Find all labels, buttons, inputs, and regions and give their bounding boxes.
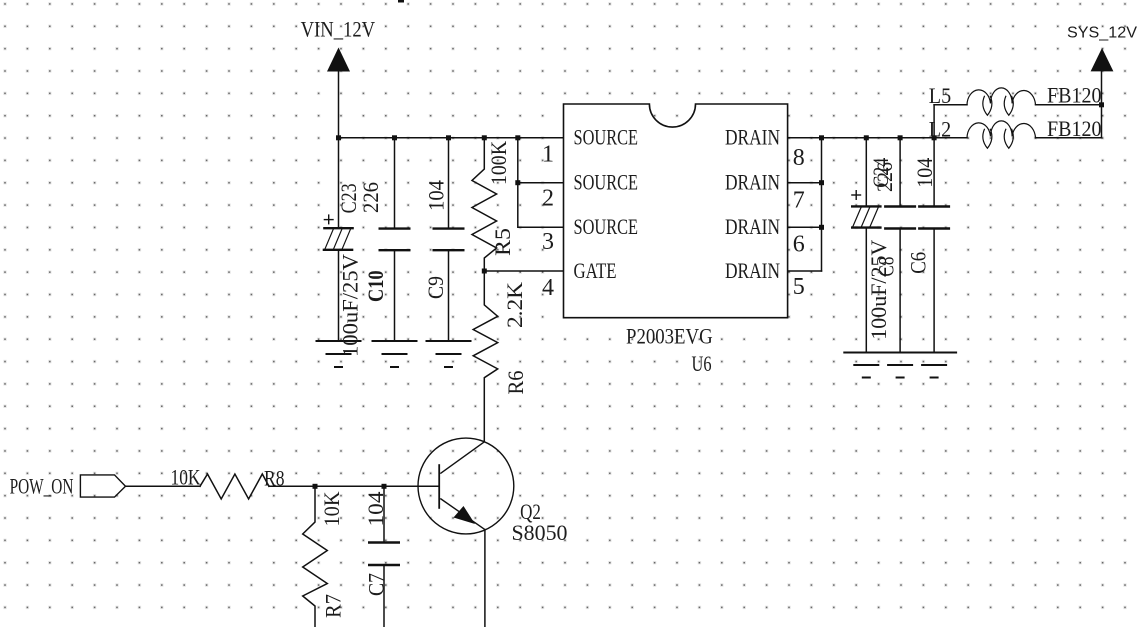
svg-text:R5: R5	[490, 228, 515, 256]
inductor L5 humps	[967, 88, 1036, 115]
wire R8 to Q2 base	[269, 485, 439, 487]
svg-text:SOURCE: SOURCE	[574, 125, 639, 150]
stray mark top edge	[398, 0, 404, 3]
ground under C23	[316, 341, 362, 367]
junction C8 at bus	[898, 135, 903, 140]
wire POW_ON to R8	[126, 485, 201, 487]
svg-text:10K: 10K	[319, 491, 344, 526]
svg-text:8: 8	[793, 145, 805, 171]
resistor R7 zigzag	[303, 486, 328, 627]
ground under C10	[372, 341, 418, 367]
capacitor C24 plates	[851, 206, 882, 227]
svg-text:4: 4	[542, 275, 554, 301]
junction L5 right	[1099, 102, 1104, 107]
junction R7 base	[313, 484, 318, 489]
svg-text:1: 1	[542, 142, 554, 168]
wire C7 lower	[383, 565, 385, 627]
transistor Q2 emitter arrow	[454, 506, 476, 524]
svg-text:SOURCE: SOURCE	[574, 170, 639, 195]
capacitor C8 plates	[884, 207, 916, 229]
svg-text:C10: C10	[363, 270, 388, 302]
capacitor C9 plates	[433, 229, 465, 251]
junction pin2	[515, 180, 520, 185]
svg-text:DRAIN: DRAIN	[725, 214, 780, 239]
resistor R5 zigzag	[472, 138, 497, 271]
svg-text:GATE: GATE	[574, 258, 617, 283]
wire C6 lower	[933, 229, 935, 353]
wire pin2	[518, 182, 564, 184]
junction VIN at bus	[336, 135, 341, 140]
wire L5 feeder vertical	[933, 105, 935, 138]
svg-text:U6: U6	[692, 351, 712, 376]
wire C9 upper	[448, 138, 450, 229]
svg-text:226: 226	[872, 162, 897, 192]
svg-text:P2003EVG: P2003EVG	[626, 324, 713, 349]
junction gate node	[482, 269, 487, 274]
svg-text:10K: 10K	[171, 464, 201, 489]
capacitor C7 plates	[368, 543, 400, 566]
svg-text:100uF/25V: 100uF/25V	[338, 254, 363, 357]
power arrow SYS_12V	[1091, 48, 1114, 71]
svg-text:104: 104	[912, 158, 937, 188]
svg-text:DRAIN: DRAIN	[725, 170, 780, 195]
svg-text:5: 5	[793, 274, 805, 300]
svg-text:100K: 100K	[486, 141, 511, 185]
wire C23 lower	[338, 250, 340, 341]
IC U6 P2003EVG body	[564, 104, 788, 318]
power arrow VIN_12V	[327, 48, 350, 72]
capacitor C23 hatch	[325, 228, 351, 250]
svg-text:SYS_12V: SYS_12V	[1067, 25, 1137, 42]
wire C6 upper	[933, 138, 935, 207]
svg-text:R6: R6	[503, 371, 528, 395]
wire C8 upper	[899, 138, 901, 207]
transistor Q2 emitter line	[440, 499, 485, 530]
junction C9 at bus	[446, 135, 451, 140]
wire L5 left	[934, 104, 967, 106]
resistor R8 zigzag	[200, 474, 269, 499]
svg-text:FB120: FB120	[1047, 116, 1102, 141]
junction feeder at bus	[515, 135, 520, 140]
svg-text:2.2K: 2.2K	[502, 282, 527, 328]
transistor Q2 collector line	[440, 441, 485, 473]
svg-text:POW_ON: POW_ON	[10, 474, 74, 499]
svg-text:100uF/25V: 100uF/25V	[866, 240, 891, 340]
capacitor C23 plates	[323, 228, 354, 250]
wire drain row pin8 to L2	[788, 137, 967, 139]
svg-text:104: 104	[363, 492, 388, 527]
svg-text:C7: C7	[364, 573, 389, 596]
svg-text:DRAIN: DRAIN	[725, 125, 780, 150]
wire VIN_12V vertical	[338, 71, 340, 138]
wire gate node to pin4	[484, 270, 563, 272]
transistor Q2 base bar	[438, 464, 440, 509]
svg-text:S8050: S8050	[512, 520, 568, 545]
junction pin7	[819, 180, 824, 185]
wire pin5	[788, 270, 822, 272]
ground under C6	[911, 353, 957, 378]
svg-text:C6: C6	[906, 252, 931, 274]
svg-text:226: 226	[358, 182, 383, 213]
wire Q2 emitter down	[484, 530, 486, 627]
junction C7 base	[382, 484, 387, 489]
wire C10 lower	[394, 250, 396, 341]
svg-text:L2: L2	[929, 116, 951, 141]
svg-text:104: 104	[424, 180, 449, 211]
svg-text:R7: R7	[321, 594, 346, 618]
wire L2 right	[1036, 137, 1102, 139]
junction pin8	[819, 135, 824, 140]
wire C24 lower	[865, 228, 867, 353]
wire C23 upper	[338, 138, 340, 228]
svg-text:FB120: FB120	[1047, 83, 1102, 108]
wire C8 lower	[899, 229, 901, 353]
ground under C9	[426, 341, 472, 367]
capacitor C6 plates	[918, 207, 950, 229]
svg-text:C9: C9	[423, 276, 448, 299]
wire main top bus	[339, 137, 564, 139]
wire L5 right	[1036, 104, 1102, 106]
svg-text:VIN_12V: VIN_12V	[301, 17, 376, 42]
junction R5 at bus	[482, 135, 487, 140]
svg-text:3: 3	[542, 229, 554, 255]
junction C6 L5 at bus	[932, 135, 937, 140]
svg-text:7: 7	[793, 188, 805, 214]
capacitor C24 plus sign	[851, 190, 861, 200]
svg-text:C8: C8	[874, 257, 899, 277]
svg-text:DRAIN: DRAIN	[725, 258, 780, 283]
wire C9 lower	[448, 250, 450, 341]
ground under C8	[877, 353, 923, 378]
wire C7 upper	[383, 486, 385, 542]
wire pin7	[788, 182, 822, 184]
transistor Q2 circle	[418, 438, 514, 534]
capacitor C24 hatch	[852, 206, 878, 227]
ground under C24	[843, 353, 889, 378]
svg-text:R8: R8	[264, 466, 285, 491]
svg-text:SOURCE: SOURCE	[574, 214, 639, 239]
wire pin2 pin3 feeder vertical	[518, 138, 564, 228]
svg-text:L5: L5	[929, 83, 951, 108]
junction pin6	[819, 225, 824, 230]
wire drain vertical bus	[821, 138, 823, 271]
wire pin6	[788, 226, 822, 228]
wire C24 upper	[865, 138, 867, 207]
capacitor C10 plates	[379, 229, 411, 251]
resistor R6 zigzag	[473, 271, 498, 441]
wire SYS_12V vertical	[1101, 71, 1103, 137]
svg-text:2: 2	[542, 186, 554, 212]
svg-text:6: 6	[793, 232, 805, 258]
inductor L2 humps	[967, 121, 1036, 148]
junction C24 at bus	[864, 135, 869, 140]
junction C10 at bus	[392, 135, 397, 140]
connector POW_ON pentagon	[80, 475, 125, 497]
wire C10 upper	[394, 138, 396, 229]
capacitor C23 plus sign	[324, 214, 334, 224]
